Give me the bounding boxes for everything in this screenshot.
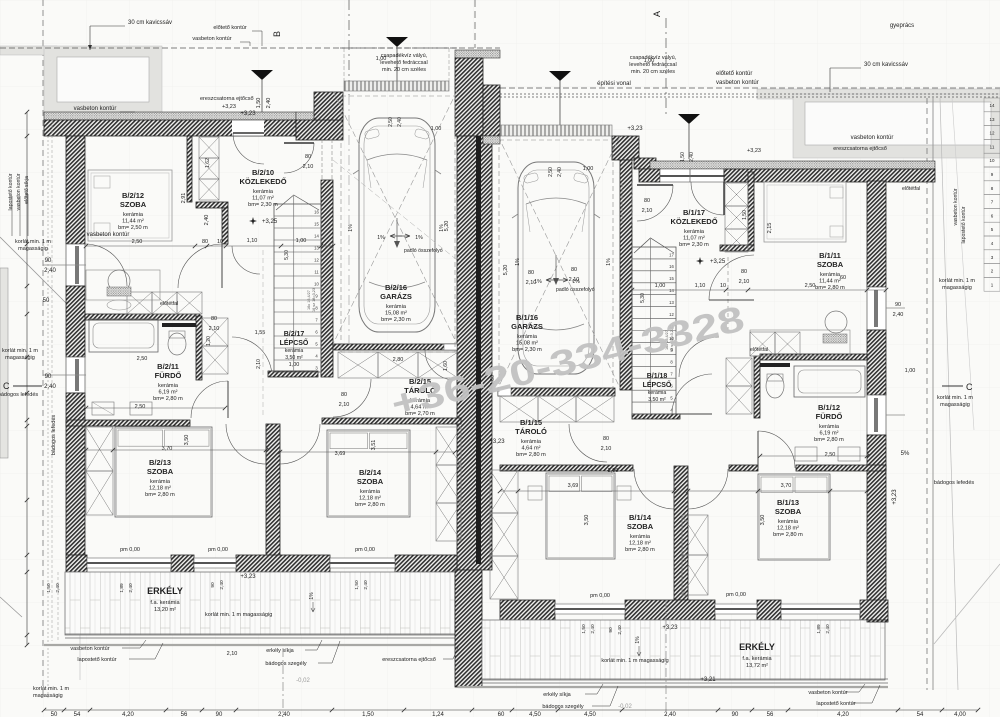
svg-text:B/2/13: B/2/13: [149, 458, 171, 467]
svg-text:vasbeton kontúr: vasbeton kontúr: [808, 690, 847, 696]
svg-text:15,08 m²: 15,08 m²: [516, 341, 538, 347]
svg-text:bm= 2,80 m: bm= 2,80 m: [815, 285, 845, 291]
svg-text:bm= 2,80 m: bm= 2,80 m: [355, 502, 385, 508]
svg-text:padló összefolyó: padló összefolyó: [404, 248, 443, 254]
svg-text:ereszcsatorna ejtőcső: ereszcsatorna ejtőcső: [200, 96, 254, 102]
svg-text:csapadékvíz vályú,: csapadékvíz vályú,: [381, 53, 428, 59]
svg-text:B: B: [272, 31, 282, 37]
svg-text:6,19 m²: 6,19 m²: [820, 431, 839, 437]
svg-text:B/2/17: B/2/17: [284, 331, 305, 338]
svg-text:2,50: 2,50: [132, 239, 143, 245]
svg-text:pm 0,00: pm 0,00: [726, 592, 746, 598]
svg-text:12: 12: [989, 131, 995, 136]
svg-text:14: 14: [314, 233, 319, 238]
svg-text:kerámia: kerámia: [360, 489, 381, 495]
svg-text:80: 80: [603, 436, 609, 442]
svg-text:1,10: 1,10: [247, 238, 258, 244]
svg-text:1%: 1%: [515, 258, 521, 266]
svg-text:2,80: 2,80: [393, 357, 404, 363]
svg-text:2,15: 2,15: [767, 223, 773, 234]
svg-text:10: 10: [720, 283, 726, 289]
svg-text:LÉPCSŐ: LÉPCSŐ: [643, 380, 672, 389]
svg-text:12,18 m²: 12,18 m²: [149, 486, 171, 492]
svg-text:-0,02: -0,02: [296, 678, 310, 684]
svg-text:3,50: 3,50: [760, 515, 766, 526]
svg-text:vasbeton kontúr: vasbeton kontúr: [74, 106, 117, 112]
svg-text:2,40: 2,40: [689, 152, 695, 162]
svg-text:4,20: 4,20: [837, 712, 849, 717]
svg-text:magasságig: magasságig: [942, 285, 972, 291]
svg-text:C: C: [966, 382, 973, 392]
svg-text:2,50: 2,50: [825, 452, 836, 458]
svg-text:5,20: 5,20: [444, 221, 450, 232]
svg-text:11,07 m²: 11,07 m²: [683, 236, 705, 242]
svg-text:B/2/11: B/2/11: [157, 362, 179, 371]
svg-text:2,10: 2,10: [227, 651, 238, 657]
svg-text:4,20: 4,20: [122, 712, 134, 717]
svg-text:B/2/10: B/2/10: [252, 168, 274, 177]
svg-text:5,30: 5,30: [640, 293, 646, 303]
svg-text:+3,23: +3,23: [747, 148, 761, 154]
svg-text:14: 14: [669, 288, 674, 293]
svg-text:1,00: 1,00: [905, 368, 916, 374]
svg-text:2,40: 2,40: [44, 384, 56, 390]
svg-text:2,40: 2,40: [363, 580, 369, 590]
svg-text:2,10: 2,10: [526, 280, 537, 286]
svg-text:magasságig: magasságig: [18, 246, 48, 252]
svg-text:13,20 m²: 13,20 m²: [154, 607, 176, 613]
svg-text:54: 54: [74, 712, 81, 717]
svg-text:kerámia: kerámia: [778, 519, 799, 525]
svg-text:KÖZLEKEDŐ: KÖZLEKEDŐ: [239, 177, 286, 186]
svg-text:1,00: 1,00: [376, 56, 387, 62]
svg-text:2,10: 2,10: [739, 279, 750, 285]
svg-text:2,10: 2,10: [601, 446, 612, 452]
svg-text:+3,23: +3,23: [892, 489, 898, 505]
svg-text:6,19 m²: 6,19 m²: [159, 390, 178, 396]
svg-text:80: 80: [644, 198, 650, 204]
svg-text:1,50: 1,50: [354, 580, 360, 590]
svg-text:2,40: 2,40: [219, 580, 225, 590]
svg-text:2,40: 2,40: [617, 625, 623, 635]
svg-text:bm= 2,80 m: bm= 2,80 m: [625, 547, 655, 553]
svg-text:építési vonal: építési vonal: [597, 81, 631, 87]
svg-text:+3,21: +3,21: [700, 677, 716, 683]
svg-text:B/2/12: B/2/12: [122, 191, 144, 200]
svg-text:+3,23: +3,23: [662, 625, 678, 631]
svg-text:előtétfal: előtétfal: [902, 186, 920, 192]
svg-text:2,50: 2,50: [548, 167, 554, 177]
svg-text:11,07 m²: 11,07 m²: [252, 196, 274, 202]
svg-text:+3,25: +3,25: [262, 219, 278, 225]
svg-text:kerámia: kerámia: [253, 189, 274, 195]
svg-text:15,08 m²: 15,08 m²: [385, 311, 407, 317]
svg-text:C: C: [3, 381, 10, 391]
svg-text:30 cm kavicssáv: 30 cm kavicssáv: [864, 62, 908, 68]
svg-text:korlát min. 1 m: korlát min. 1 m: [2, 348, 38, 354]
svg-text:korlát min. 1 m: korlát min. 1 m: [939, 278, 975, 284]
svg-text:padló összefolyó: padló összefolyó: [556, 287, 595, 293]
svg-text:vasbeton kontúr: vasbeton kontúr: [70, 646, 109, 652]
svg-text:kerámia: kerámia: [648, 390, 667, 396]
svg-text:pm 0,00: pm 0,00: [120, 547, 140, 553]
svg-text:B/1/18: B/1/18: [647, 373, 668, 380]
svg-text:korlát min. 1 m magasságig: korlát min. 1 m magasságig: [205, 612, 272, 618]
svg-text:12: 12: [314, 257, 319, 262]
svg-text:2,40: 2,40: [204, 215, 210, 226]
svg-text:2,40: 2,40: [893, 312, 904, 318]
svg-text:kerámia: kerámia: [123, 212, 144, 218]
svg-text:+3,23: +3,23: [627, 126, 643, 132]
svg-text:3,70: 3,70: [162, 446, 173, 452]
svg-text:2,40: 2,40: [55, 583, 61, 593]
svg-text:lapostető kontúr: lapostető kontúr: [816, 701, 855, 707]
svg-text:2,40: 2,40: [44, 268, 56, 274]
svg-text:3,50 m²: 3,50 m²: [285, 355, 303, 361]
svg-text:előtető kontúr: előtető kontúr: [213, 25, 246, 31]
svg-text:kerámia: kerámia: [386, 304, 407, 310]
svg-text:bm= 2,80 m: bm= 2,80 m: [516, 452, 546, 458]
svg-text:2,40: 2,40: [590, 624, 596, 634]
svg-text:előtétfal: előtétfal: [750, 347, 768, 353]
svg-text:90: 90: [210, 582, 216, 588]
svg-text:90: 90: [216, 712, 223, 717]
svg-text:bm= 2,80 m: bm= 2,80 m: [145, 492, 175, 498]
svg-text:1%: 1%: [606, 258, 612, 266]
svg-text:2,10: 2,10: [303, 164, 314, 170]
svg-text:60: 60: [840, 275, 846, 281]
svg-text:10: 10: [314, 281, 319, 286]
svg-text:1,00: 1,00: [644, 58, 655, 64]
svg-text:-0,02: -0,02: [618, 704, 632, 710]
svg-text:vasbeton kontúr: vasbeton kontúr: [192, 36, 231, 42]
svg-text:60: 60: [498, 712, 505, 717]
svg-text:90: 90: [895, 302, 901, 308]
svg-text:2,40: 2,40: [128, 583, 134, 593]
svg-text:bm= 2,30 m: bm= 2,30 m: [248, 202, 278, 208]
svg-text:1,50: 1,50: [362, 712, 374, 717]
svg-text:bádogos lefedés: bádogos lefedés: [934, 480, 975, 486]
svg-text:1,00: 1,00: [296, 238, 307, 244]
svg-text:2,40: 2,40: [397, 117, 403, 127]
svg-text:B/1/17: B/1/17: [683, 208, 705, 217]
svg-text:erkély síkja: erkély síkja: [266, 648, 294, 654]
svg-text:1,00: 1,00: [583, 166, 594, 172]
svg-text:80: 80: [211, 316, 217, 322]
svg-text:11: 11: [990, 144, 995, 149]
svg-text:11: 11: [314, 269, 319, 274]
svg-text:4,00: 4,00: [954, 712, 966, 717]
svg-text:3,51: 3,51: [371, 440, 377, 451]
svg-text:2,40: 2,40: [266, 98, 272, 109]
svg-text:1%: 1%: [309, 592, 315, 600]
svg-text:3,50: 3,50: [184, 435, 190, 446]
svg-text:korlát min. 1 m: korlát min. 1 m: [937, 395, 973, 401]
svg-text:kerámia: kerámia: [517, 334, 538, 340]
svg-text:min. 20 cm széles: min. 20 cm széles: [631, 69, 675, 75]
svg-text:min. 20 cm széles: min. 20 cm széles: [382, 67, 426, 73]
svg-text:13: 13: [989, 117, 995, 122]
svg-text:B/1/12: B/1/12: [818, 403, 840, 412]
svg-text:90: 90: [732, 712, 739, 717]
svg-text:5,20: 5,20: [503, 265, 509, 276]
svg-text:előtétfal: előtétfal: [160, 301, 178, 307]
svg-text:B/1/11: B/1/11: [819, 251, 841, 260]
svg-text:4,50: 4,50: [529, 712, 541, 717]
svg-text:2,40: 2,40: [557, 167, 563, 177]
svg-text:kerámia: kerámia: [820, 272, 841, 278]
svg-text:vasbeton kontúr: vasbeton kontúr: [716, 80, 759, 86]
svg-text:1,20: 1,20: [206, 336, 212, 346]
svg-text:LÉPCSŐ: LÉPCSŐ: [280, 338, 309, 347]
svg-text:2,91: 2,91: [181, 193, 187, 204]
svg-text:1%: 1%: [415, 235, 423, 241]
svg-text:kerámia: kerámia: [684, 229, 705, 235]
svg-text:bádogos szegély: bádogos szegély: [265, 661, 307, 667]
svg-text:30 cm kavicssáv: 30 cm kavicssáv: [128, 20, 172, 26]
svg-text:16: 16: [669, 264, 674, 269]
svg-text:SZOBA: SZOBA: [627, 522, 654, 531]
svg-text:80: 80: [571, 267, 577, 273]
svg-text:12,18 m²: 12,18 m²: [629, 541, 651, 547]
svg-text:korlát min. 1 m: korlát min. 1 m: [33, 686, 69, 692]
svg-text:pm 0,00: pm 0,00: [355, 547, 375, 553]
svg-text:2,10: 2,10: [256, 359, 262, 369]
svg-text:80: 80: [305, 154, 311, 160]
svg-text:A: A: [652, 11, 662, 17]
svg-text:+3,23: +3,23: [240, 111, 256, 117]
svg-text:vasbeton kontúr: vasbeton kontúr: [16, 173, 22, 210]
svg-text:3,70: 3,70: [781, 483, 792, 489]
svg-text:1,24: 1,24: [432, 712, 444, 717]
svg-text:GARÁZS: GARÁZS: [380, 292, 412, 301]
svg-text:54: 54: [917, 712, 924, 717]
svg-text:50: 50: [43, 298, 50, 304]
svg-text:15: 15: [314, 221, 319, 226]
svg-text:50: 50: [51, 712, 58, 717]
svg-text:90: 90: [45, 258, 52, 264]
svg-text:4,50: 4,50: [584, 712, 596, 717]
svg-text:1,50: 1,50: [46, 583, 52, 593]
svg-text:kerámia: kerámia: [150, 479, 171, 485]
svg-text:2,10: 2,10: [569, 277, 580, 283]
svg-text:1%: 1%: [635, 636, 641, 644]
svg-text:SZOBA: SZOBA: [357, 477, 384, 486]
svg-text:11,44 m²: 11,44 m²: [122, 219, 144, 225]
svg-text:1,50: 1,50: [680, 152, 686, 162]
svg-text:11,44 m²: 11,44 m²: [819, 279, 841, 285]
svg-text:SZOBA: SZOBA: [775, 507, 802, 516]
svg-text:1,00: 1,00: [655, 283, 666, 289]
svg-text:kerámia: kerámia: [158, 383, 179, 389]
svg-text:f.a. kerámia: f.a. kerámia: [150, 600, 180, 606]
svg-text:ereszcsatorna ejtőcső: ereszcsatorna ejtőcső: [833, 146, 887, 152]
svg-text:13,72 m²: 13,72 m²: [746, 663, 768, 669]
svg-text:10: 10: [989, 158, 995, 163]
svg-text:1,50: 1,50: [581, 624, 587, 634]
svg-text:B/1/16: B/1/16: [516, 313, 538, 322]
svg-text:2,40: 2,40: [825, 624, 831, 634]
svg-text:B/2/14: B/2/14: [359, 468, 382, 477]
svg-text:TÁROLÓ: TÁROLÓ: [515, 427, 547, 436]
svg-text:lapostető kontúr: lapostető kontúr: [77, 657, 116, 663]
svg-text:+3,23: +3,23: [240, 574, 256, 580]
svg-text:magasságig: magasságig: [5, 355, 35, 361]
svg-text:bádogos lefedés: bádogos lefedés: [0, 392, 38, 398]
svg-text:2,40: 2,40: [664, 712, 676, 717]
svg-text:pm 0,00: pm 0,00: [208, 547, 228, 553]
svg-text:ereszcsatorna ejtőcső: ereszcsatorna ejtőcső: [382, 657, 436, 663]
svg-text:bm= 2,80 m: bm= 2,80 m: [773, 532, 803, 538]
svg-text:2,40: 2,40: [278, 712, 290, 717]
svg-text:KÖZLEKEDŐ: KÖZLEKEDŐ: [670, 217, 717, 226]
svg-text:FÜRDŐ: FÜRDŐ: [155, 371, 182, 380]
svg-text:ERKÉLY: ERKÉLY: [739, 642, 775, 652]
svg-text:bm= 2,30 m: bm= 2,30 m: [381, 317, 411, 323]
svg-text:2,10: 2,10: [209, 326, 220, 332]
svg-text:magasságig: magasságig: [940, 402, 970, 408]
svg-text:56: 56: [767, 712, 774, 717]
svg-text:kerámia: kerámia: [285, 348, 304, 354]
svg-text:magasságig: magasságig: [33, 693, 63, 699]
svg-text:B/1/14: B/1/14: [629, 513, 652, 522]
svg-text:3,50: 3,50: [584, 515, 590, 526]
svg-text:2,90: 2,90: [608, 468, 619, 474]
svg-text:lapostető kontúr: lapostető kontúr: [8, 173, 14, 210]
svg-text:kerámia: kerámia: [819, 424, 840, 430]
svg-text:korlát min. 1 m: korlát min. 1 m: [15, 239, 51, 245]
svg-text:B/2/16: B/2/16: [385, 283, 407, 292]
svg-text:bádogos szegély: bádogos szegély: [542, 704, 584, 710]
svg-text:FÜRDŐ: FÜRDŐ: [816, 412, 843, 421]
svg-text:lapostető kontúr: lapostető kontúr: [961, 206, 967, 243]
svg-text:levehető fedráccsal: levehető fedráccsal: [380, 60, 427, 66]
svg-text:bm= 2,50 m: bm= 2,50 m: [118, 225, 148, 231]
svg-text:5%: 5%: [901, 451, 910, 457]
svg-text:12,18 m²: 12,18 m²: [777, 526, 799, 532]
svg-text:15: 15: [669, 276, 674, 281]
svg-text:90: 90: [45, 374, 52, 380]
svg-text:1,62: 1,62: [205, 158, 211, 168]
svg-text:vasbeton kontúr: vasbeton kontúr: [87, 232, 130, 238]
svg-text:10: 10: [217, 239, 223, 245]
svg-text:bm= 2,30 m: bm= 2,30 m: [679, 242, 709, 248]
svg-text:13: 13: [669, 300, 674, 305]
svg-text:16 sz 18=3,23: 16 sz 18=3,23: [312, 288, 316, 312]
svg-text:4,64 m²: 4,64 m²: [522, 446, 541, 452]
svg-text:2,10: 2,10: [642, 208, 653, 214]
svg-text:80: 80: [741, 269, 747, 275]
svg-text:3,69: 3,69: [568, 483, 579, 489]
svg-text:80: 80: [202, 239, 208, 245]
svg-text:90: 90: [608, 627, 614, 633]
svg-text:SZOBA: SZOBA: [147, 467, 174, 476]
svg-text:bm= 2,80 m: bm= 2,80 m: [153, 396, 183, 402]
svg-text:gyeprács: gyeprács: [890, 23, 914, 29]
svg-text:ERKÉLY: ERKÉLY: [147, 586, 183, 596]
svg-text:GARÁZS: GARÁZS: [511, 322, 543, 331]
svg-text:+3,23: +3,23: [222, 104, 236, 110]
svg-text:1%: 1%: [377, 235, 385, 241]
svg-text:2,50: 2,50: [137, 356, 148, 362]
svg-text:1,55: 1,55: [255, 330, 266, 336]
svg-text:B/1/15: B/1/15: [520, 418, 542, 427]
svg-text:16x 16,4/27: 16x 16,4/27: [307, 290, 311, 310]
svg-text:1,00: 1,00: [289, 362, 300, 368]
svg-text:14: 14: [989, 103, 995, 108]
svg-text:B/1/13: B/1/13: [777, 498, 799, 507]
svg-text:1,10: 1,10: [695, 283, 706, 289]
svg-text:bádogos lefedés: bádogos lefedés: [51, 415, 57, 456]
svg-text:+3,23: +3,23: [489, 439, 505, 445]
svg-text:bm= 2,80 m: bm= 2,80 m: [814, 437, 844, 443]
svg-text:1,50: 1,50: [742, 210, 748, 220]
svg-text:1,50: 1,50: [256, 98, 262, 109]
svg-text:1,00: 1,00: [431, 126, 442, 132]
svg-text:pm 0,00: pm 0,00: [590, 593, 610, 599]
svg-text:3,50 m²: 3,50 m²: [648, 397, 666, 403]
svg-text:+3,25: +3,25: [710, 259, 726, 265]
svg-text:előtető kontúr: előtető kontúr: [716, 71, 752, 77]
svg-text:kerámia: kerámia: [521, 439, 542, 445]
svg-text:5,30: 5,30: [284, 250, 290, 260]
svg-text:80: 80: [341, 392, 347, 398]
svg-text:1,89: 1,89: [119, 583, 125, 593]
svg-text:vasbeton kontúr: vasbeton kontúr: [953, 188, 959, 225]
svg-text:56: 56: [181, 712, 188, 717]
svg-text:f.a. kerámia: f.a. kerámia: [742, 656, 772, 662]
svg-text:kerámia: kerámia: [630, 534, 651, 540]
svg-text:SZOBA: SZOBA: [817, 260, 844, 269]
svg-text:2,50: 2,50: [388, 117, 394, 127]
svg-text:SZOBA: SZOBA: [120, 200, 147, 209]
svg-text:vasbeton kontúr: vasbeton kontúr: [851, 135, 894, 141]
svg-text:1,89: 1,89: [816, 624, 822, 634]
svg-text:12,18 m²: 12,18 m²: [359, 496, 381, 502]
svg-text:80: 80: [528, 270, 534, 276]
svg-text:korlát min. 1 m magasságig: korlát min. 1 m magasságig: [601, 658, 668, 664]
svg-text:2,50: 2,50: [135, 404, 146, 410]
svg-text:erkély síkja: erkély síkja: [543, 692, 571, 698]
svg-text:2,10: 2,10: [339, 402, 350, 408]
svg-text:2,50: 2,50: [805, 283, 816, 289]
